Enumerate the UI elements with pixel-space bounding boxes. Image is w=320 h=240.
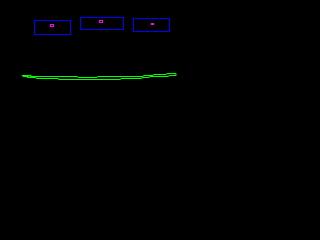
pad P3 (filled magenta) <box>151 23 154 25</box>
wire pen-down dash lower row <box>23 76 28 78</box>
pad P1 (hollow magenta) <box>51 25 54 27</box>
component U3 outline <box>134 19 170 32</box>
wire pen-down dash upper row <box>22 75 31 77</box>
component U2 outline <box>81 18 124 30</box>
component U1 outline <box>35 21 71 35</box>
wire (green freehand scribble: bottom strand right, end cap, top strand back left) <box>28 74 176 80</box>
pad P2 (hollow magenta) <box>100 21 103 23</box>
